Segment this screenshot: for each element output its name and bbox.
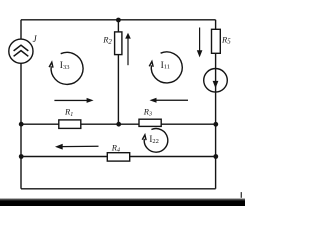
junction node: left rail / R4 rail [19,154,24,159]
arrow down beside R5 [197,28,203,58]
branch arrow right (between I33 loop and R1) [54,98,93,103]
svg-text:I33: I33 [60,61,70,71]
wire R2 branch [117,20,119,124]
svg-text:R3: R3 [143,106,152,117]
branch arrow left (between I11 loop and R3) [150,98,189,103]
junction node: R2 branch / middle rail [116,122,121,127]
mesh arrow I33 [49,52,83,84]
wire left rail [20,20,22,189]
current source J [9,39,33,63]
svg-text:R2: R2 [102,35,112,46]
cursor tick bottom right [241,192,242,200]
mesh arrow I11 [149,52,182,83]
svg-text:R1: R1 [64,107,73,118]
resistor R1 [59,120,81,128]
junction node: left rail / middle rail [19,122,24,127]
arrow up beside R2 [125,33,131,65]
svg-text:R4: R4 [111,142,120,153]
resistor R5 [212,29,221,53]
wire middle rail (R1-R3 row) [21,123,216,125]
wire top rail [21,19,216,21]
wire right rail [215,20,217,189]
junction node: right rail / middle rail [213,122,218,127]
resistor R2 [115,32,122,55]
branch arrow left above R4 [55,144,99,150]
svg-text:I11: I11 [161,61,170,71]
resistor R4 [107,153,129,161]
svg-text:R5: R5 [221,34,231,45]
resistor R3 [139,119,161,126]
junction node: top of R2 branch [116,18,121,23]
wire bottom rail [21,188,216,190]
svg-text:J: J [33,34,38,44]
svg-text:I22: I22 [149,134,159,145]
wire R4 rail [21,156,216,158]
mesh arrow I22 [142,129,168,153]
junction node: right rail / R4 rail [213,154,218,159]
current source (right, with down arrow) [204,69,228,93]
